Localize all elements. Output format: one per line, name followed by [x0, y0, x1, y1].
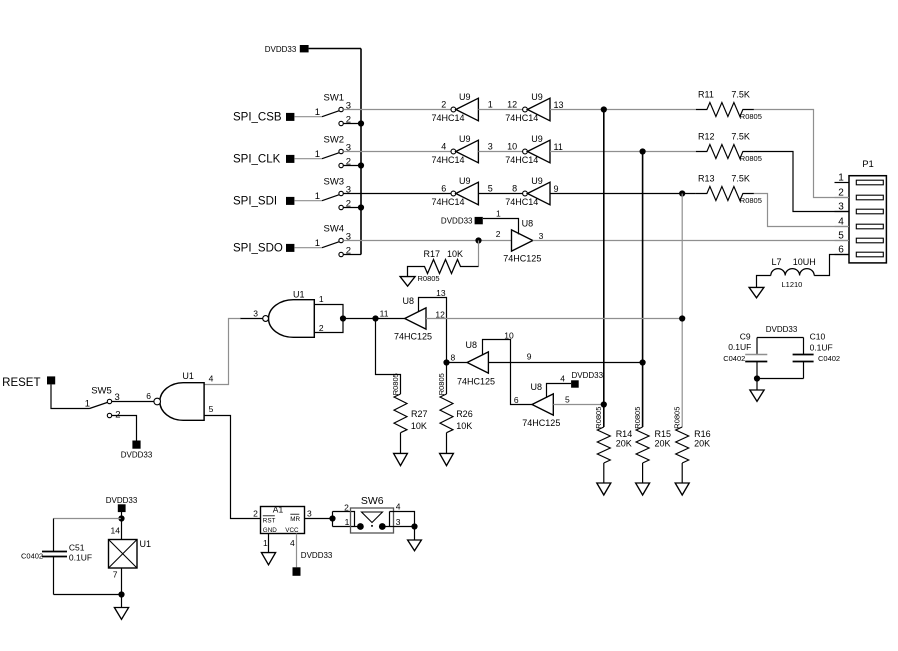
- ground (R17): [400, 277, 415, 287]
- svg-text:2: 2: [319, 323, 324, 333]
- svg-text:SW4: SW4: [324, 224, 345, 235]
- wire switch to U9 pin 6: [343, 193, 451, 195]
- svg-text:R0805: R0805: [740, 196, 762, 205]
- wire SW3 pin2 to bus: [343, 207, 361, 209]
- svg-text:DVDD33: DVDD33: [121, 450, 153, 459]
- svg-text:13: 13: [436, 288, 446, 298]
- svg-text:11: 11: [380, 309, 389, 319]
- svg-text:U1: U1: [140, 539, 152, 549]
- junction R17 tap on SDO line: [475, 237, 481, 243]
- inverter U9 74HC14 (pin 8->9): [488, 176, 559, 207]
- wire pulldown line from row1 to R14: [603, 110, 605, 428]
- ground (R26): [440, 453, 454, 465]
- capacitor C10 0.1UF: [793, 332, 841, 379]
- svg-text:14: 14: [111, 526, 121, 536]
- junction pin12 / line C: [679, 315, 685, 321]
- svg-text:13: 13: [554, 100, 564, 110]
- svg-text:2: 2: [838, 188, 844, 199]
- svg-text:5: 5: [838, 231, 844, 242]
- junction U1 pins 1,2: [340, 315, 346, 321]
- svg-text:74HC125: 74HC125: [394, 331, 432, 341]
- wire SW6 right bracket: [382, 512, 414, 527]
- net label SPI_SDI: [233, 195, 294, 207]
- switch SW1: [315, 93, 351, 126]
- net label SPI_CLK: [233, 153, 294, 165]
- wire A1 pin1 to ground: [268, 534, 270, 553]
- svg-text:74HC14: 74HC14: [432, 155, 465, 165]
- wire switch to U9 pin 2: [343, 109, 451, 111]
- P1 pin 5 lead: [835, 231, 850, 242]
- resistor R14 20K: [594, 407, 632, 483]
- nand gate U1 (pins 4,5 -> 6): [146, 371, 213, 420]
- svg-text:U9: U9: [531, 92, 543, 102]
- wire U9 pin 11 to R12: [550, 151, 696, 153]
- P1 pin 3 lead: [835, 202, 850, 213]
- svg-text:L7: L7: [772, 257, 782, 267]
- svg-text:VCC: VCC: [285, 527, 299, 534]
- svg-text:74HC14: 74HC14: [505, 155, 538, 165]
- svg-text:DVDD33: DVDD33: [106, 496, 138, 505]
- wire SPI_SDO pin1 lead: [294, 247, 322, 249]
- svg-text:R26: R26: [456, 409, 473, 419]
- wire U8 pin 12 to pulldown line C: [426, 318, 682, 320]
- wire U8 pin 3 to P1 pin 5: [533, 240, 849, 242]
- svg-text:8: 8: [512, 184, 517, 194]
- net label RESET: [2, 376, 55, 388]
- wire U8 pin 4 control: [547, 384, 572, 398]
- net label SPI_CSB: [233, 111, 294, 123]
- wire C51 bottom to U1 pin7: [54, 594, 122, 596]
- svg-text:74HC14: 74HC14: [432, 113, 465, 123]
- wire P1 pin 6 to L7: [814, 255, 849, 276]
- wire U1 pin3 to U1 pin4 (L route): [204, 319, 240, 385]
- svg-text:74HC14: 74HC14: [505, 197, 538, 207]
- wire SPI_CSB pin1 lead: [294, 116, 322, 118]
- svg-text:1: 1: [315, 191, 320, 202]
- ground (R27): [394, 453, 408, 465]
- op-amp buffer U8 74HC125 (pin 12->11): [394, 296, 445, 341]
- wire R13 to P1 pin 4: [754, 194, 849, 227]
- wire U9 pin 1 to pin 12: [478, 109, 522, 111]
- svg-text:4: 4: [396, 502, 401, 512]
- junction row1 / pulldown line: [601, 106, 607, 112]
- svg-text:U9: U9: [531, 176, 543, 186]
- svg-text:DVDD33: DVDD33: [766, 325, 798, 334]
- ground (R15): [636, 483, 650, 495]
- svg-text:DVDD33: DVDD33: [265, 45, 297, 54]
- svg-text:7: 7: [113, 569, 118, 579]
- switch SW5: [85, 386, 121, 421]
- wire SPI_CLK pin1 lead: [294, 158, 322, 160]
- svg-text:A1: A1: [273, 504, 284, 514]
- svg-text:1: 1: [838, 173, 844, 184]
- svg-text:R13: R13: [698, 174, 715, 184]
- svg-text:GND: GND: [263, 527, 277, 534]
- wire switch common bus vertical: [360, 49, 362, 255]
- svg-text:R0805: R0805: [740, 154, 762, 163]
- svg-text:20K: 20K: [694, 438, 710, 448]
- junction pin5 / line A: [601, 401, 607, 407]
- wire A1 pin4 to DVDD33: [296, 534, 298, 568]
- svg-text:MR: MR: [290, 516, 300, 523]
- wire RESET to SW5 pin1: [51, 384, 90, 408]
- connector P1: [849, 159, 886, 263]
- wire SDO junction down to R17: [478, 241, 480, 267]
- svg-text:C0402: C0402: [723, 354, 745, 363]
- wire A1 pin3 to SW6: [305, 518, 333, 520]
- wire R27 tap down: [376, 319, 401, 395]
- svg-text:DVDD33: DVDD33: [301, 551, 333, 560]
- svg-text:20K: 20K: [655, 438, 671, 448]
- svg-text:U8: U8: [531, 382, 543, 392]
- svg-text:0.1UF: 0.1UF: [728, 342, 751, 352]
- svg-text:4: 4: [290, 538, 295, 548]
- resistor R27 10K: [391, 373, 428, 453]
- P1 pin 1 lead: [835, 173, 850, 184]
- switch SW2: [315, 135, 351, 168]
- svg-text:C51: C51: [69, 543, 85, 553]
- wire SW1 pin2 to bus: [343, 123, 361, 125]
- wire U8 pin13 control / pin8 net: [419, 298, 447, 363]
- junction SW3 pin2 / bus: [358, 204, 364, 210]
- svg-text:74HC125: 74HC125: [522, 418, 560, 428]
- svg-text:RESET: RESET: [2, 377, 40, 389]
- wire pulldown line from row2 to R15: [642, 152, 644, 428]
- svg-text:11: 11: [554, 142, 563, 152]
- svg-text:SPI_CSB: SPI_CSB: [233, 111, 282, 123]
- svg-text:8: 8: [451, 353, 456, 363]
- svg-text:74HC125: 74HC125: [457, 376, 495, 386]
- ground (R14): [597, 483, 611, 495]
- svg-text:1: 1: [496, 208, 501, 218]
- wire SW4 pin 3 to U8 pin 2: [343, 240, 511, 242]
- reset supervisor A1: [253, 504, 312, 547]
- svg-text:U9: U9: [459, 134, 471, 144]
- power DVDD33 (A1): [293, 551, 333, 576]
- wire U9 pin 5 to pin 8: [478, 193, 522, 195]
- svg-text:6: 6: [441, 184, 446, 194]
- svg-text:DVDD33: DVDD33: [572, 371, 604, 380]
- wire R12 to P1 pin 3: [754, 152, 849, 212]
- svg-text:1: 1: [315, 107, 320, 118]
- P1 pin 2 lead: [835, 188, 850, 199]
- inductor L7 10UH: [771, 257, 816, 289]
- ground (C9/C10): [750, 390, 764, 401]
- net label SPI_SDO: [233, 242, 294, 254]
- op-amp buffer U8 74HC125 (pin 9->8): [451, 340, 532, 386]
- junction row2 / pulldown line: [640, 148, 646, 154]
- wire R11 to P1 pin 2: [754, 110, 849, 198]
- svg-text:R27: R27: [411, 409, 428, 419]
- svg-text:R0805: R0805: [391, 373, 400, 395]
- junction C9/C10 ground: [754, 375, 760, 381]
- resistor R12 7.5K: [696, 132, 762, 163]
- wire SW5 pin3 to U1 pin6: [112, 401, 154, 403]
- op-amp buffer U8 74HC125 (pin 2->3): [496, 219, 544, 264]
- svg-text:R12: R12: [698, 132, 715, 142]
- power DVDD33 (SW5): [121, 441, 153, 460]
- svg-text:74HC125: 74HC125: [503, 253, 541, 263]
- P1 pin 4 lead: [835, 217, 850, 228]
- wire C10 to C9 ground node: [757, 378, 804, 380]
- svg-text:SW1: SW1: [324, 93, 345, 104]
- svg-text:4: 4: [441, 142, 446, 152]
- wire SW2 pin2 to bus: [343, 165, 361, 167]
- svg-text:0.1UF: 0.1UF: [69, 552, 92, 562]
- ic U1 spare gate (X-box): [109, 512, 152, 608]
- svg-text:3: 3: [396, 517, 401, 527]
- inverter U9 74HC14 (pin 10->11): [488, 134, 563, 165]
- svg-text:10: 10: [504, 331, 514, 341]
- svg-text:4: 4: [838, 217, 844, 228]
- wire DVDD33 rail C9-C10: [757, 337, 804, 339]
- junction SW6 pin3 / ground: [411, 523, 417, 529]
- svg-text:U1: U1: [293, 290, 305, 300]
- svg-text:9: 9: [527, 352, 532, 362]
- svg-text:5: 5: [565, 394, 570, 404]
- svg-text:10: 10: [507, 142, 517, 152]
- svg-text:4: 4: [209, 374, 214, 384]
- ground (R16): [675, 483, 689, 495]
- junction U8 pin 8: [443, 359, 449, 365]
- svg-text:5: 5: [488, 184, 493, 194]
- switch SW6 (pushbutton): [344, 495, 401, 533]
- wire U8 pin 5 to pulldown line A: [553, 404, 604, 406]
- junction U1 pin7 / ground: [118, 591, 124, 597]
- svg-text:SPI_SDI: SPI_SDI: [233, 195, 277, 207]
- svg-text:7.5K: 7.5K: [731, 174, 750, 184]
- svg-text:R0805: R0805: [418, 274, 440, 283]
- wire DVDD33 to C51 top: [54, 518, 122, 520]
- svg-text:74HC14: 74HC14: [505, 113, 538, 123]
- svg-text:74HC14: 74HC14: [432, 197, 465, 207]
- svg-text:0.1UF: 0.1UF: [810, 342, 833, 352]
- svg-text:3: 3: [488, 142, 493, 152]
- junction SW6 pins 1,2: [329, 515, 335, 521]
- svg-text:1: 1: [263, 538, 268, 548]
- junction row3 / pulldown line: [679, 190, 685, 196]
- svg-text:10K: 10K: [411, 421, 427, 431]
- power DVDD33 (U8 pin 4): [560, 371, 603, 388]
- wire DVDD33 to switch bus: [309, 48, 361, 50]
- svg-text:U8: U8: [466, 340, 478, 350]
- wire U8 pin10 control to U8 pin6: [483, 340, 533, 405]
- svg-text:10UH: 10UH: [793, 257, 816, 267]
- svg-text:5: 5: [209, 404, 214, 414]
- svg-text:3: 3: [838, 202, 844, 213]
- svg-text:SW6: SW6: [361, 495, 384, 507]
- svg-text:10K: 10K: [447, 249, 463, 259]
- power DVDD33 (top): [265, 45, 309, 54]
- inverter U9 74HC14 (pin 12->13): [488, 92, 564, 123]
- svg-text:RST: RST: [263, 518, 276, 525]
- wire pulldown line from row3 to R16: [681, 194, 683, 428]
- wire U1 pins 1,2 tie: [314, 305, 343, 333]
- svg-text:SPI_CLK: SPI_CLK: [233, 153, 281, 165]
- wire switch to U9 pin 4: [343, 151, 451, 153]
- resistor R15 20K: [633, 407, 671, 483]
- svg-text:C9: C9: [740, 332, 751, 342]
- nand gate U1 (pins 1,2 -> 3): [253, 290, 324, 338]
- resistor R11 7.5K: [696, 90, 762, 121]
- svg-text:R17: R17: [424, 249, 441, 259]
- resistor R16 20K: [672, 407, 710, 483]
- wire U1 pin5 to A1 pin2: [204, 416, 260, 519]
- ground (SW6): [408, 540, 422, 551]
- ground (A1): [261, 553, 275, 565]
- svg-text:SW3: SW3: [324, 177, 345, 188]
- svg-text:3: 3: [539, 231, 544, 241]
- wire U8 pin 1 control: [483, 219, 519, 235]
- wire SW5 pin2 to DVDD33: [112, 416, 137, 441]
- wire U9 pin 9 to R13: [550, 193, 696, 195]
- capacitor C51 0.1UF: [21, 519, 92, 595]
- switch SW3: [315, 177, 351, 210]
- svg-text:2: 2: [496, 229, 501, 239]
- svg-text:SW2: SW2: [324, 135, 345, 146]
- power DVDD33 (U8 pin 1): [441, 208, 501, 225]
- svg-text:U9: U9: [459, 92, 471, 102]
- inverter U9 74HC14 (pin 2->1): [432, 92, 479, 123]
- svg-text:3: 3: [253, 309, 258, 319]
- svg-text:SPI_SDO: SPI_SDO: [233, 242, 283, 254]
- svg-text:1: 1: [488, 100, 493, 110]
- svg-text:1: 1: [319, 294, 324, 304]
- svg-text:C10: C10: [810, 332, 826, 342]
- svg-text:P1: P1: [862, 159, 874, 170]
- junction DVDD33 / C51: [118, 515, 124, 521]
- op-amp buffer U8 74HC125 (pin 6->5): [522, 382, 570, 428]
- wire U8 pin 9 to pulldown line B: [488, 362, 642, 364]
- svg-text:3: 3: [307, 508, 312, 518]
- svg-text:R0805: R0805: [672, 407, 681, 429]
- capacitor C9 0.1UF: [723, 332, 767, 390]
- wire junction to U8 pin 8: [447, 362, 468, 364]
- svg-text:R0805: R0805: [740, 112, 762, 121]
- junction SW2 pin2 / bus: [358, 162, 364, 168]
- svg-text:R0805: R0805: [633, 407, 642, 429]
- svg-text:2: 2: [344, 502, 349, 512]
- wire SW4 pin2 to bus: [343, 254, 361, 256]
- svg-text:U1: U1: [182, 371, 194, 381]
- power DVDD33 (U1 X-box): [106, 496, 138, 512]
- wire SW6 left bracket: [333, 512, 361, 527]
- svg-text:6: 6: [146, 391, 151, 401]
- ground (U1 X-box): [114, 608, 128, 620]
- wire SW6 to ground: [414, 527, 416, 541]
- svg-text:U8: U8: [522, 219, 534, 229]
- resistor R13 7.5K: [696, 174, 762, 205]
- svg-text:12: 12: [507, 100, 517, 110]
- wire U9 pin 13 to R11: [550, 109, 696, 111]
- svg-text:R11: R11: [698, 90, 714, 100]
- svg-text:U9: U9: [531, 134, 543, 144]
- svg-text:U9: U9: [459, 176, 471, 186]
- svg-text:C0402: C0402: [818, 354, 840, 363]
- svg-text:L1210: L1210: [782, 280, 803, 289]
- svg-text:U8: U8: [403, 296, 415, 306]
- svg-text:7.5K: 7.5K: [731, 90, 750, 100]
- svg-text:C0402: C0402: [21, 551, 43, 560]
- svg-text:2: 2: [441, 100, 446, 110]
- svg-text:2: 2: [253, 508, 258, 518]
- svg-text:1: 1: [315, 238, 320, 249]
- svg-text:1: 1: [85, 399, 90, 410]
- svg-text:R0805: R0805: [437, 373, 446, 395]
- inverter U9 74HC14 (pin 6->5): [432, 176, 479, 207]
- svg-text:9: 9: [554, 184, 559, 194]
- wire U1 out to buffer U8 pin 11: [343, 318, 405, 320]
- inverter U9 74HC14 (pin 4->3): [432, 134, 479, 165]
- svg-text:4: 4: [560, 373, 565, 383]
- svg-text:SW5: SW5: [91, 386, 112, 397]
- junction R27 tap: [372, 315, 378, 321]
- resistor R26 10K: [437, 363, 473, 454]
- svg-text:10K: 10K: [456, 421, 472, 431]
- junction pin9 / line B: [640, 359, 646, 365]
- svg-text:20K: 20K: [616, 438, 632, 448]
- svg-text:1: 1: [345, 517, 350, 527]
- resistor R17 10K: [408, 249, 479, 283]
- svg-text:6: 6: [514, 395, 519, 405]
- svg-text:R0805: R0805: [594, 407, 603, 429]
- svg-text:7.5K: 7.5K: [731, 132, 750, 142]
- wire U1 output pin 3 (left): [240, 318, 263, 320]
- switch SW4: [315, 224, 351, 257]
- ground (L7): [749, 287, 764, 297]
- svg-text:DVDD33: DVDD33: [441, 216, 473, 225]
- wire L7 to ground: [757, 276, 771, 288]
- P1 pin 6 lead: [835, 245, 850, 256]
- junction SW1 pin2 / bus: [358, 120, 364, 126]
- svg-text:1: 1: [315, 149, 320, 160]
- wire U9 pin 3 to pin 10: [478, 151, 522, 153]
- wire SPI_SDI pin1 lead: [294, 200, 322, 202]
